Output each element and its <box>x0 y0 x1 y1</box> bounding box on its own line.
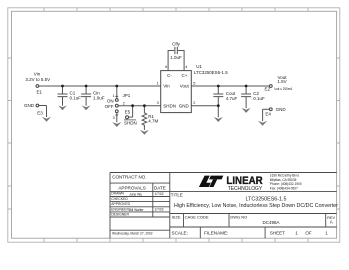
svg-text:LTC3250ES6-1.5: LTC3250ES6-1.5 <box>194 70 228 75</box>
svg-text:GND: GND <box>276 107 287 112</box>
svg-text:CAGE CODE: CAGE CODE <box>185 215 209 220</box>
svg-text:SHDN: SHDN <box>124 120 137 125</box>
svg-text:DESIGNER: DESIGNER <box>111 212 129 216</box>
svg-text:APPROVALS: APPROVALS <box>118 186 146 191</box>
svg-text:DATE: DATE <box>154 186 166 191</box>
svg-text:6: 6 <box>165 65 167 69</box>
svg-text:1.5V: 1.5V <box>277 79 286 84</box>
svg-text:High Efficiency, Low Noise, In: High Efficiency, Low Noise, Inductorless… <box>174 203 338 209</box>
svg-text:E1: E1 <box>37 89 43 94</box>
svg-text:Vin: Vin <box>163 84 170 89</box>
svg-text:E3: E3 <box>37 111 43 116</box>
svg-text:3: 3 <box>157 101 159 105</box>
svg-text:1/7/02: 1/7/02 <box>154 192 163 196</box>
svg-text:1/7/02: 1/7/02 <box>154 207 163 211</box>
svg-text:A: A <box>330 220 333 225</box>
svg-text:APPROVED: APPROVED <box>111 202 130 206</box>
svg-text:C+: C+ <box>182 73 188 78</box>
svg-text:Vout: Vout <box>180 84 190 89</box>
svg-text:ENGINEER: ENGINEER <box>111 207 129 211</box>
svg-text:CONTRACT NO.: CONTRACT NO. <box>112 175 146 180</box>
svg-text:DRAWN: DRAWN <box>111 192 124 196</box>
svg-text:Fax: (408)434-0507: Fax: (408)434-0507 <box>270 187 298 191</box>
svg-text:5: 5 <box>193 81 195 85</box>
svg-text:1.0uF: 1.0uF <box>93 96 105 101</box>
svg-text:C-: C- <box>167 73 172 78</box>
svg-text:ON: ON <box>107 98 114 103</box>
svg-text:1: 1 <box>295 231 298 236</box>
svg-text:Iout ≤ 250mA: Iout ≤ 250mA <box>274 87 292 91</box>
svg-text:1.0uF: 1.0uF <box>170 55 182 60</box>
svg-text:2: 2 <box>123 101 125 105</box>
svg-text:SHDN: SHDN <box>163 103 176 108</box>
svg-text:0.1uF: 0.1uF <box>70 96 82 101</box>
svg-text:TITLE: TITLE <box>171 192 183 197</box>
svg-text:GND: GND <box>179 103 190 108</box>
svg-text:E5: E5 <box>125 110 131 115</box>
svg-text:1: 1 <box>325 231 328 236</box>
svg-text:3: 3 <box>113 116 115 120</box>
svg-text:SCALE:: SCALE: <box>172 231 188 236</box>
svg-text:0.1uF: 0.1uF <box>253 96 265 101</box>
svg-text:1: 1 <box>113 94 115 98</box>
svg-text:U1: U1 <box>196 64 202 69</box>
svg-text:1: 1 <box>157 81 159 85</box>
svg-text:TECHNOLOGY: TECHNOLOGY <box>228 186 263 192</box>
svg-text:Wednesday, March 27, 2002: Wednesday, March 27, 2002 <box>112 231 153 236</box>
svg-text:GND: GND <box>24 103 35 108</box>
svg-text:3.2V to 5.5V: 3.2V to 5.5V <box>25 77 50 82</box>
svg-text:E2: E2 <box>264 86 270 91</box>
svg-text:DC498A: DC498A <box>262 220 279 225</box>
svg-text:OF: OF <box>305 231 312 236</box>
svg-text:FILENAME:: FILENAME: <box>204 231 228 236</box>
svg-text:SHEET: SHEET <box>270 231 285 236</box>
svg-text:LTC3250ES6-1.5: LTC3250ES6-1.5 <box>246 196 287 202</box>
svg-text:DWG NO: DWG NO <box>230 215 247 220</box>
svg-text:Cfly: Cfly <box>172 42 180 47</box>
svg-text:4: 4 <box>185 65 187 69</box>
svg-text:June Wu: June Wu <box>129 192 142 196</box>
svg-text:4.7M: 4.7M <box>148 118 158 123</box>
svg-text:SIZE: SIZE <box>172 215 181 220</box>
svg-text:CHECKED: CHECKED <box>111 197 128 201</box>
svg-text:E4: E4 <box>265 111 271 116</box>
svg-text:OFF: OFF <box>105 104 114 109</box>
svg-text:4.7uF: 4.7uF <box>226 96 238 101</box>
svg-text:2: 2 <box>193 101 195 105</box>
svg-text:Vin: Vin <box>34 72 41 77</box>
svg-text:JP1: JP1 <box>123 93 131 98</box>
svg-text:Bill Walter: Bill Walter <box>129 208 145 212</box>
